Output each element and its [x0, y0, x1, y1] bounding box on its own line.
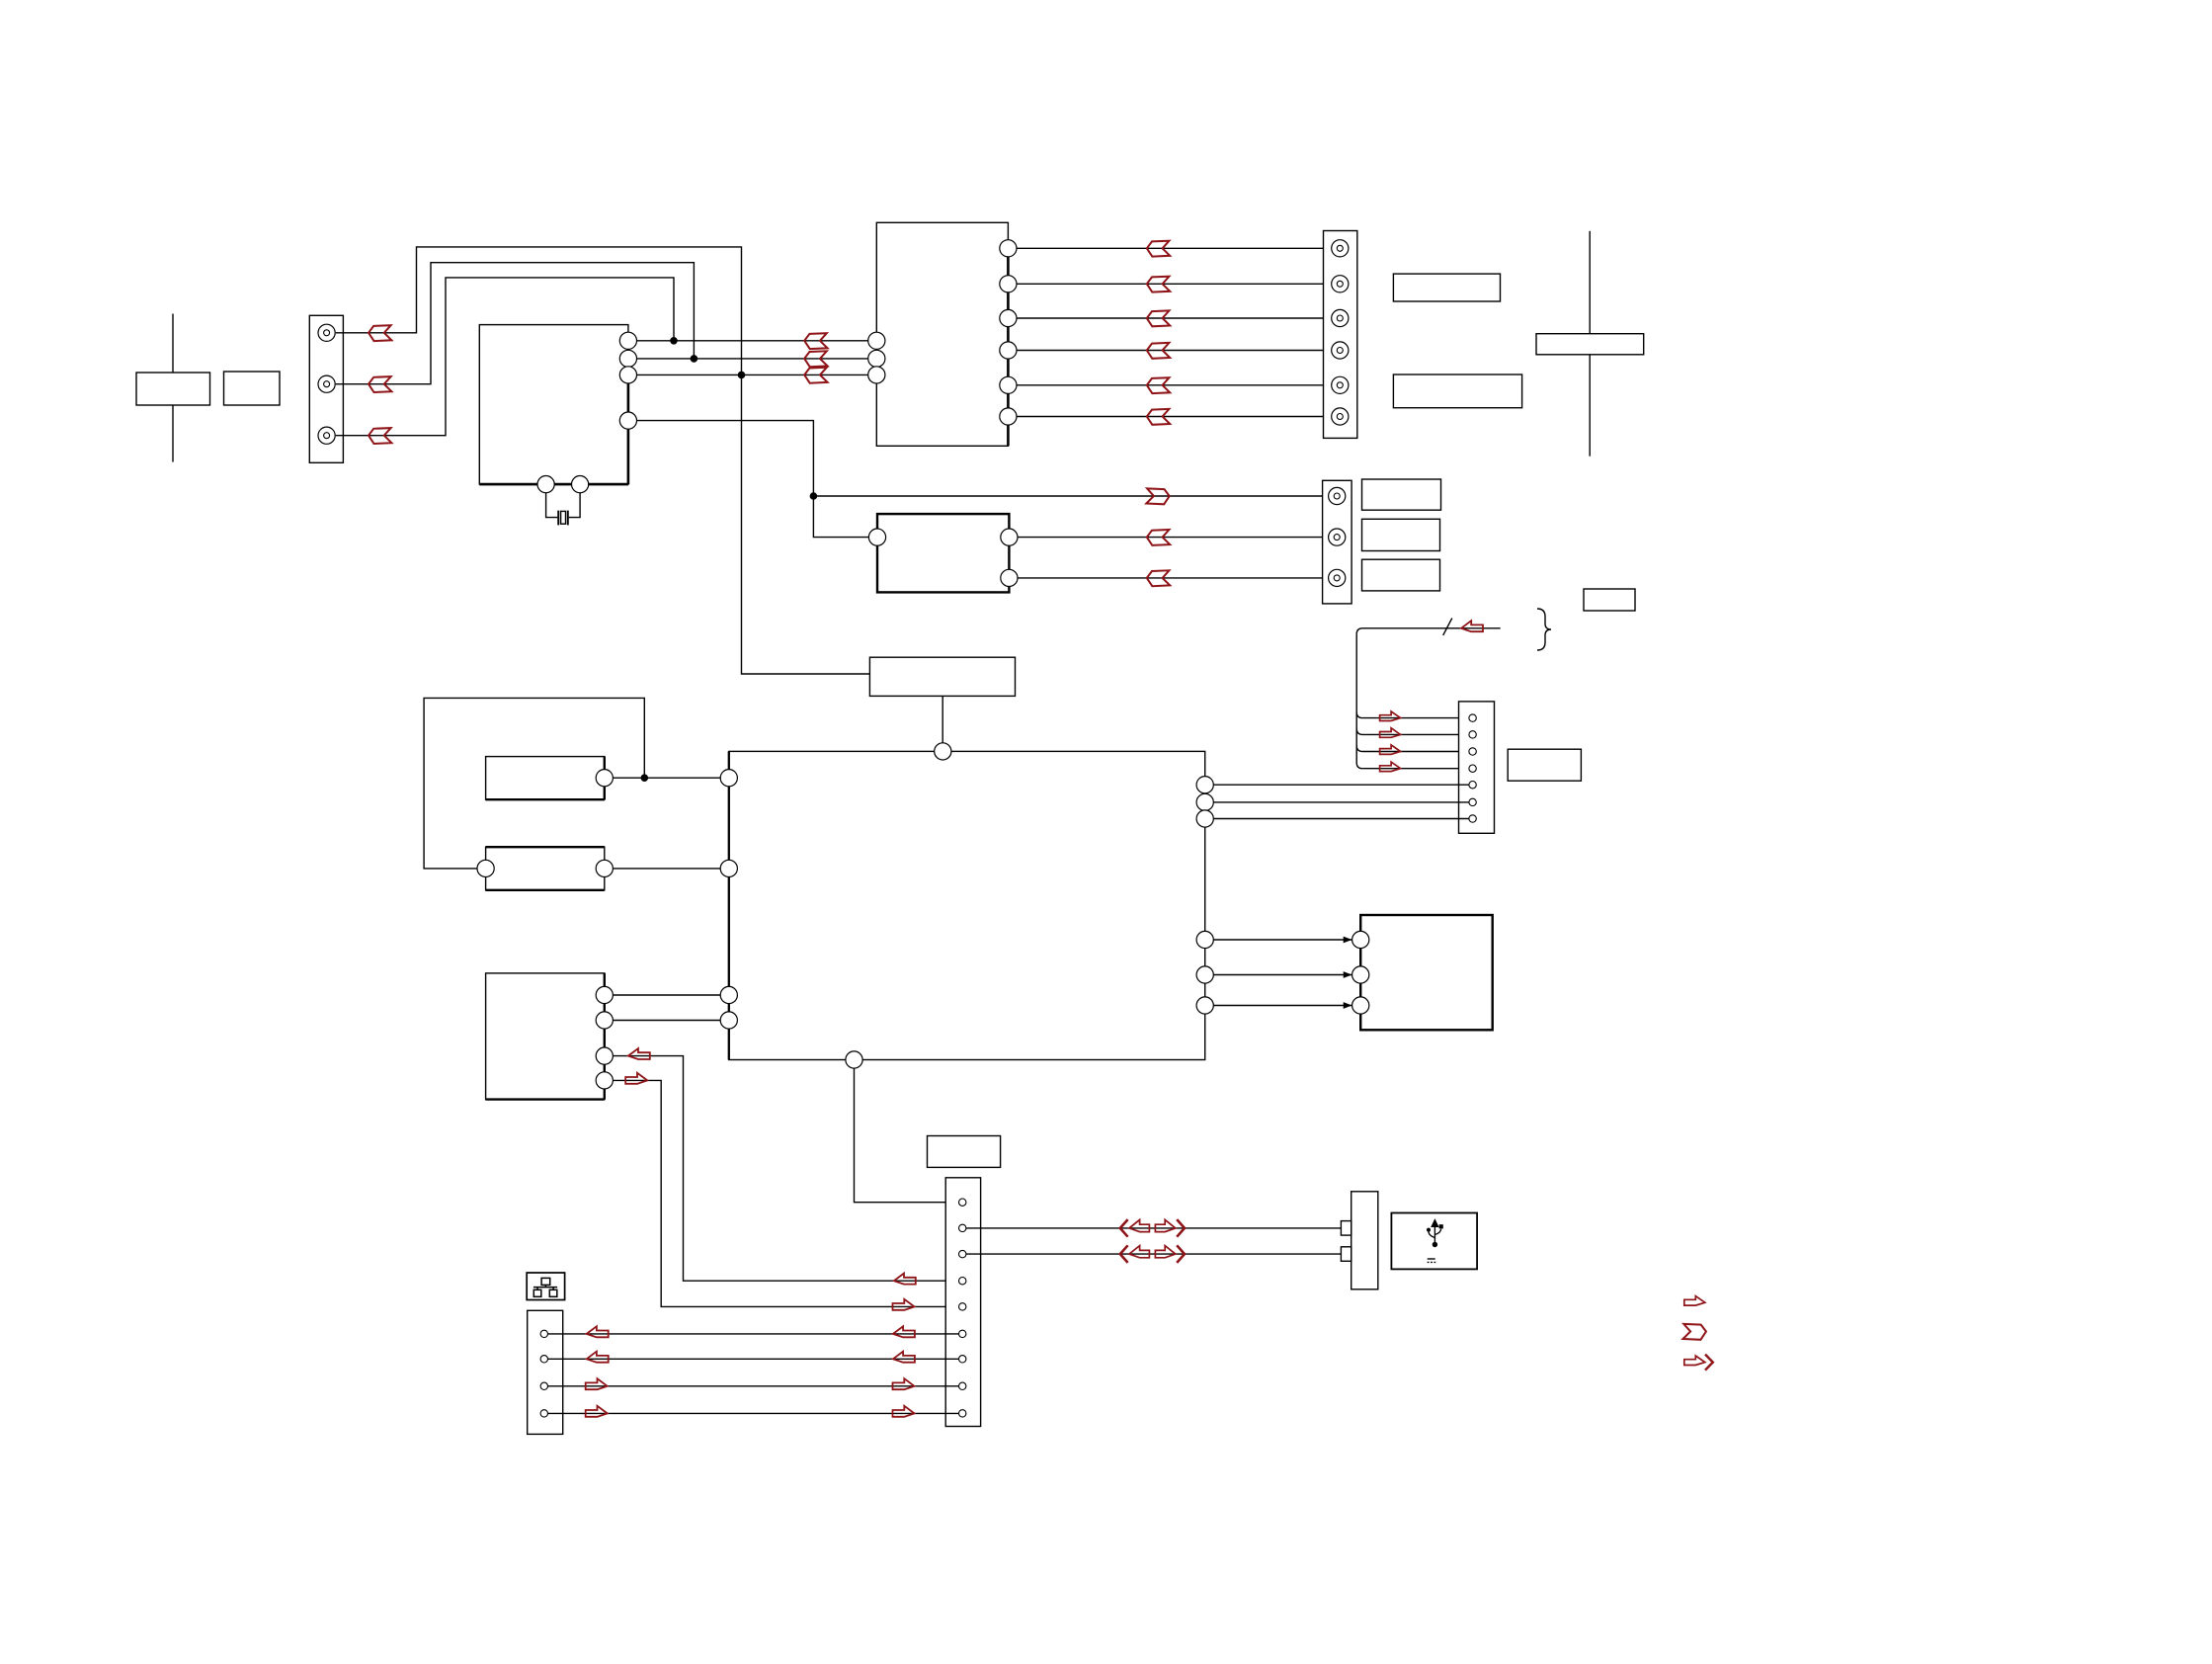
arrow on B3 out4 near block	[625, 1073, 647, 1084]
wire J7 pin1 to J5 pin6	[548, 1333, 959, 1335]
arrow on bus branch 3	[1380, 745, 1401, 755]
legend chevron arrow right	[1683, 1324, 1706, 1340]
label rectangle R4	[1584, 589, 1635, 611]
wire B2 to U5	[613, 868, 720, 870]
connector J1 body	[309, 315, 343, 462]
label rectangle R3	[869, 657, 1015, 696]
arrow on bus branch 1	[1380, 711, 1401, 721]
junction dot pin4 riser	[810, 493, 816, 499]
wire B3 out2 to U5	[613, 1020, 720, 1022]
jack J2-5	[1332, 376, 1349, 393]
wire node to connector J3 jack1	[813, 495, 1328, 497]
shield line S1 lower segment	[172, 405, 174, 462]
bus branch 4	[1362, 768, 1469, 770]
connector J7 ethernet body	[528, 1310, 563, 1434]
wire U1 pin1 to U2	[637, 340, 868, 342]
shield line S3 upper segment	[1589, 231, 1591, 334]
block B1 bold edge	[486, 757, 605, 800]
wire U1 pin3 to U2	[637, 374, 868, 375]
arrowhead U6 line3	[1344, 1002, 1352, 1009]
wire U3 out2 to J3	[1018, 577, 1329, 579]
block U3 body	[877, 514, 1009, 592]
pin U2 left 2	[868, 350, 885, 367]
jack J2-1	[1332, 240, 1349, 257]
wire U2 out3 to J2	[1017, 317, 1324, 319]
arrow J7 wire3 right b	[893, 1378, 915, 1389]
pin B3 right 4	[596, 1072, 613, 1089]
arrow on B3 out3 near J5	[894, 1274, 916, 1285]
pin U5 left 3	[720, 986, 737, 1003]
wire U3 out1 to J3	[1018, 537, 1329, 539]
arrow on U3 out1	[1147, 530, 1170, 545]
USB logo box	[1391, 1213, 1477, 1270]
arrow on U2 out5	[1147, 377, 1170, 393]
double arrow right on USB wire1	[1155, 1219, 1185, 1237]
pin J4-2	[1469, 731, 1476, 738]
wire U1 pin4 to U3	[637, 421, 869, 538]
wire B3 out4 to J5 pin5	[613, 1080, 958, 1306]
loop wire B1 to B2	[424, 698, 644, 869]
pin J5-5	[959, 1303, 966, 1310]
wire U2 out5 to J2	[1017, 384, 1324, 386]
legend hollow arrow right	[1684, 1296, 1705, 1306]
pin B3 right 3	[596, 1047, 613, 1064]
crystal X1 body	[561, 511, 566, 524]
block U5 body	[729, 751, 1205, 1059]
pin J5-2	[959, 1224, 966, 1231]
arrow on J1 pin1 wire	[369, 325, 391, 341]
arrow on B3 out4 near J5	[893, 1299, 915, 1310]
wire U5 right top2 to J4 pin6	[1213, 801, 1469, 803]
pin U2 left 1	[868, 332, 885, 349]
connector J6 USB body	[1352, 1192, 1378, 1290]
wire J7 pin3 to J5 pin8	[548, 1385, 959, 1387]
arrow J7 wire4 right a	[586, 1406, 608, 1417]
wire B3 out1 to U5	[613, 994, 720, 996]
arrow on B3 out3 near block	[628, 1048, 650, 1059]
block B1 body	[486, 757, 605, 800]
block U6 body	[1360, 915, 1493, 1030]
arrow on bus branch 4	[1380, 762, 1401, 772]
ethernet icon glyph	[533, 1278, 557, 1296]
connector J4 body	[1459, 702, 1495, 833]
jack J3-2	[1329, 529, 1346, 545]
wire J5 pin3 to USB pad2	[966, 1253, 1342, 1255]
block B3 bold edge	[486, 973, 605, 1100]
label rectangle R6	[1362, 519, 1440, 550]
arrowhead U6 line1	[1344, 937, 1352, 944]
pin U1-1	[619, 332, 636, 349]
pin U1 bottom 2	[572, 476, 589, 493]
pin J5-3	[959, 1250, 966, 1257]
wire J7 pin4 to J5 pin9	[548, 1412, 959, 1414]
jack J2-2	[1332, 276, 1349, 292]
arrow J7 wire1 left a	[587, 1326, 609, 1337]
pin J5-4	[959, 1278, 966, 1285]
pin U5 top	[935, 743, 951, 760]
wire J1 pin2 to corner	[336, 263, 695, 384]
jack J3-3	[1329, 569, 1346, 586]
block B2 body	[486, 847, 605, 890]
pin U1-2	[619, 350, 636, 367]
arrowhead U6 line2	[1344, 971, 1352, 978]
pin U2 right 6	[1000, 408, 1017, 425]
block B3 body	[486, 973, 605, 1100]
label rectangle R1	[1393, 274, 1500, 301]
double arrow right on USB wire2	[1155, 1245, 1185, 1263]
shield line S1 upper segment	[172, 314, 174, 374]
USB pad 2	[1341, 1247, 1351, 1262]
pin U1 bottom 1	[537, 476, 554, 493]
pin U1-4	[619, 412, 636, 429]
connector J5 body	[945, 1178, 980, 1427]
wire J1 pin3 to corner	[336, 278, 674, 436]
wire U1 pin2 to U2	[637, 358, 868, 360]
label rectangle R8 above J5	[928, 1136, 1001, 1168]
wire U5 to U6 line3	[1213, 1005, 1352, 1007]
bus vertical line	[1356, 634, 1362, 769]
arrow big 1 between U1 and U2	[804, 333, 827, 349]
wire U2 out1 to J2	[1017, 247, 1324, 249]
pin J7-4	[540, 1410, 547, 1417]
arrow big 3 between U1 and U2	[804, 368, 827, 383]
wire U2 out4 to J2	[1017, 350, 1324, 352]
label rectangle R7	[1362, 559, 1440, 591]
pin J7-2	[540, 1356, 547, 1363]
arrow on U2 out1	[1147, 241, 1170, 257]
pin J5-9	[959, 1410, 966, 1417]
arrow J7 wire1 left b	[893, 1326, 915, 1337]
pin U2 left 3	[868, 367, 885, 383]
arrow on U2 out6	[1147, 409, 1170, 425]
pin J4-4	[1469, 765, 1476, 772]
block U4 body	[1508, 749, 1581, 781]
label rectangle R5	[1362, 479, 1441, 510]
block B2 bold edge	[486, 847, 605, 890]
pin U3 left	[868, 529, 885, 545]
arrow on U2 out4	[1147, 343, 1170, 359]
block U2 body	[876, 222, 1008, 446]
pin J7-3	[540, 1382, 547, 1389]
legend double arrow right	[1684, 1355, 1713, 1371]
jack J1-1	[318, 324, 335, 341]
pin U5 bottom	[846, 1051, 862, 1068]
pin U6-1	[1352, 931, 1369, 948]
shield S3 plate rectangle	[1536, 334, 1644, 355]
bus branch 2	[1356, 728, 1469, 734]
wire U5 bottom to J5 pin1	[855, 1068, 959, 1203]
double arrow left on USB wire2	[1120, 1245, 1150, 1263]
wire J1 pin1 to corner	[336, 247, 870, 674]
pin U2 right 4	[1000, 342, 1017, 359]
wire U2 out6 to J2	[1017, 416, 1324, 418]
jack J2-3	[1332, 309, 1349, 326]
pin U5 right 6	[1196, 997, 1213, 1014]
arrow J7 wire2 left a	[587, 1352, 609, 1363]
jack J3-1	[1329, 487, 1346, 504]
pin J5-8	[959, 1382, 966, 1389]
arrow on bus top wire	[1461, 621, 1483, 631]
jack J2-6	[1332, 408, 1349, 425]
bus branch 1	[1356, 712, 1469, 718]
pin B1 right	[596, 770, 613, 787]
pin U6-2	[1352, 966, 1369, 983]
crystal X1 leads	[546, 493, 581, 518]
wire J5 pin2 to USB pad1	[966, 1227, 1342, 1229]
wire J7 pin2 to J5 pin7	[548, 1358, 959, 1360]
wire B3 out3 to J5 pin4	[613, 1056, 958, 1282]
pin U5 right 1	[1196, 777, 1213, 793]
wire U5 right top1 to J4 pin5	[1213, 784, 1469, 786]
pin U3 right 2	[1001, 569, 1018, 586]
arrow big 2 between U1 and U2	[804, 351, 827, 367]
bus top wire	[1356, 628, 1501, 634]
wire U5 right top3 to J4 pin7	[1213, 818, 1469, 820]
shield S1 plate rectangle	[136, 373, 210, 405]
pin J5-6	[959, 1330, 966, 1337]
pin U5 left 1	[720, 770, 737, 787]
junction dot wire1	[671, 338, 677, 344]
connector J2 body	[1324, 231, 1357, 439]
junction dot wire2	[691, 356, 696, 362]
pin U2 right 2	[1000, 276, 1017, 292]
pin U5 right 4	[1196, 931, 1213, 948]
junction dot B1 wire	[641, 775, 647, 781]
pin J4-1	[1469, 714, 1476, 721]
jack J1-2	[318, 375, 335, 392]
pin U2 right 5	[1000, 376, 1017, 393]
arrow on J1 pin3 wire	[369, 428, 391, 444]
arrow on J1 pin2 wire	[369, 376, 391, 392]
pin U5 right 2	[1196, 793, 1213, 810]
pin U5 right 5	[1196, 966, 1213, 983]
pin U5 right 3	[1196, 810, 1213, 827]
pin U1-3	[619, 367, 636, 383]
jack J2-4	[1332, 342, 1349, 359]
pin J5-7	[959, 1356, 966, 1363]
jack J1-3	[318, 427, 335, 444]
pin J5-1	[959, 1199, 966, 1206]
pin J7-1	[540, 1330, 547, 1337]
wire B1 to U5	[613, 777, 720, 779]
block U1 body	[479, 325, 628, 485]
USB pad 1	[1341, 1221, 1351, 1236]
wire U5 to U6 line2	[1213, 974, 1352, 976]
rectangle S2	[224, 372, 281, 405]
pin J4-7	[1469, 815, 1476, 822]
pin B2 right	[596, 860, 613, 876]
pin U5 left 4	[720, 1012, 737, 1029]
arrow on bus branch 2	[1380, 728, 1401, 738]
pin U2 right 3	[1000, 309, 1017, 326]
wire U5 to U6 line1	[1213, 939, 1352, 941]
pin U2 right 1	[1000, 240, 1017, 257]
pin U3 right 1	[1001, 529, 1018, 545]
arrow J7 wire4 right b	[893, 1406, 915, 1417]
shield line S3 lower segment	[1589, 355, 1591, 457]
label rectangle R2	[1393, 374, 1521, 408]
arrow J7 wire2 left b	[893, 1352, 915, 1363]
pin J4-3	[1469, 748, 1476, 755]
arrow on U2 out3	[1147, 310, 1170, 326]
arrow on U2 out2	[1147, 277, 1170, 292]
brace	[1537, 609, 1551, 650]
pin J4-6	[1469, 798, 1476, 805]
arrow on wire to J3 jack1	[1146, 488, 1169, 504]
pin J4-5	[1469, 782, 1476, 789]
pin B2 left	[477, 860, 494, 876]
pin U5 left 2	[720, 860, 737, 876]
double arrow left on USB wire1	[1120, 1219, 1150, 1237]
wire R3 stem to U5 top pin	[942, 696, 943, 742]
pin U6-3	[1352, 997, 1369, 1014]
arrow J7 wire3 right a	[586, 1378, 608, 1389]
wire U2 out2 to J2	[1017, 283, 1324, 285]
junction dot wire3	[738, 372, 744, 377]
ethernet icon box	[527, 1273, 564, 1300]
pin B3 right 1	[596, 986, 613, 1003]
bus branch 3	[1356, 746, 1469, 752]
block U2 bold right edge	[1007, 241, 1010, 446]
USB trident symbol	[1427, 1220, 1443, 1263]
connector J3 body	[1323, 480, 1352, 604]
arrow on U3 out2	[1147, 570, 1170, 586]
block U1 bold edge	[479, 337, 628, 484]
bus slash mark	[1443, 619, 1452, 635]
crystal X1 plates	[558, 511, 568, 526]
pin B3 right 2	[596, 1012, 613, 1029]
